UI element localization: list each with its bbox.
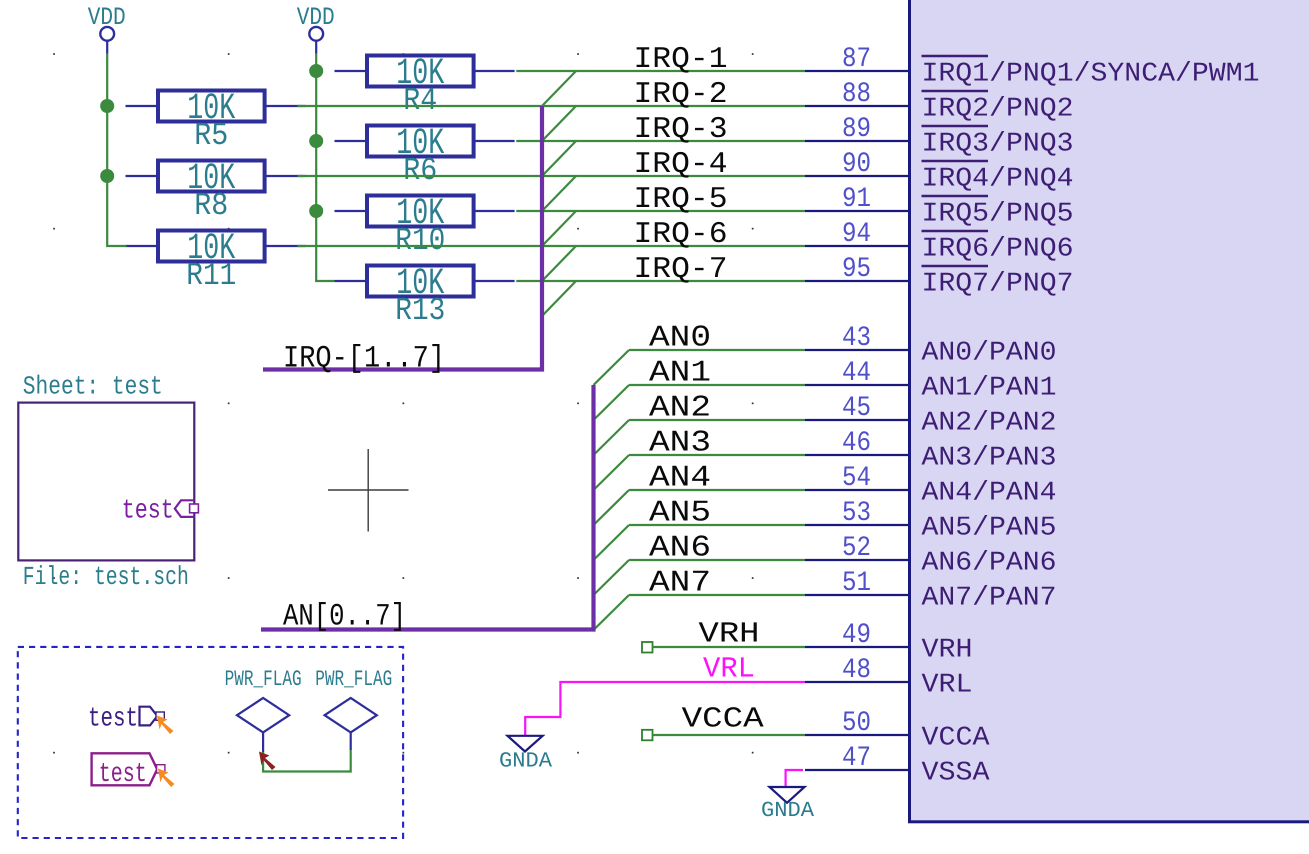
- svg-text:VRL: VRL: [922, 671, 973, 701]
- svg-text:AN3: AN3: [649, 427, 711, 461]
- svg-text:IRQ-6: IRQ-6: [634, 218, 728, 252]
- svg-text:GNDA: GNDA: [761, 799, 814, 823]
- junction (107,106): [100, 99, 114, 113]
- bus entry IRQ y=71: [542, 71, 576, 106]
- hierarchical label "test": [88, 705, 164, 735]
- wire AN row y=350: [629, 349, 805, 351]
- svg-text:VSSA: VSSA: [922, 759, 991, 789]
- svg-text:IRQ3/PNQ3: IRQ3/PNQ3: [922, 130, 1074, 160]
- wire AN row y=560: [629, 559, 805, 561]
- crosshair marker: [328, 449, 409, 532]
- bus entry AN y=350: [594, 350, 630, 385]
- svg-text:IRQ6/PNQ6: IRQ6/PNQ6: [922, 235, 1074, 265]
- dashed selection box: [18, 647, 403, 838]
- bus entry AN y=420: [594, 420, 630, 455]
- svg-text:R10: R10: [395, 222, 445, 259]
- svg-text:46: 46: [842, 428, 871, 459]
- U1 pin 89 (IRQ3): [805, 114, 1074, 160]
- svg-text:test: test: [122, 497, 174, 527]
- svg-text:91: 91: [842, 184, 871, 215]
- resistor R13 (10K): [335, 263, 515, 329]
- wire IRQ row y=106: [298, 105, 806, 107]
- svg-text:R13: R13: [395, 292, 445, 329]
- svg-text:AN2/PAN2: AN2/PAN2: [922, 409, 1057, 439]
- svg-text:AN3/PAN3: AN3/PAN3: [922, 444, 1057, 474]
- svg-text:IRQ-5: IRQ-5: [634, 183, 728, 217]
- wire AN row y=420: [629, 419, 805, 421]
- svg-text:51: 51: [842, 568, 871, 599]
- global label "test": [92, 753, 165, 790]
- svg-text:AN5/PAN5: AN5/PAN5: [922, 514, 1057, 544]
- marker arrow (dark red) on PWR_FLAG wire: [259, 752, 276, 771]
- bus IRQ-[1..7]: [263, 106, 542, 370]
- svg-text:IRQ7/PNQ7: IRQ7/PNQ7: [922, 270, 1074, 300]
- wire IRQ row y=71: [516, 70, 805, 72]
- IC U1 body: [910, 0, 1309, 822]
- svg-text:PWR_FLAG: PWR_FLAG: [225, 667, 302, 692]
- svg-text:test: test: [99, 760, 147, 790]
- wire IRQ row y=246: [298, 245, 806, 247]
- bus entry IRQ y=246: [542, 246, 576, 281]
- wire between PWR_FLAGs: [263, 750, 351, 772]
- bus entry IRQ y=176: [542, 176, 576, 211]
- svg-text:File: test.sch: File: test.sch: [23, 562, 189, 592]
- svg-text:GNDA: GNDA: [499, 750, 552, 774]
- svg-text:IRQ-1: IRQ-1: [634, 43, 728, 77]
- wire IRQ row y=211: [516, 210, 805, 212]
- svg-text:45: 45: [842, 393, 871, 424]
- PWR_FLAG symbol 1: [225, 667, 302, 752]
- svg-text:48: 48: [842, 655, 871, 686]
- U1 pin 91 (IRQ5): [805, 184, 1074, 230]
- svg-text:IRQ-3: IRQ-3: [634, 113, 728, 147]
- power symbol VDD1 (VDD): [88, 3, 126, 54]
- sheet symbol "test": [18, 403, 194, 561]
- bus entry AN y=595: [594, 595, 630, 630]
- wire IRQ row y=281: [516, 280, 805, 282]
- sheet pin "test": [122, 497, 199, 527]
- svg-text:44: 44: [842, 358, 871, 389]
- svg-text:IRQ-[1..7]: IRQ-[1..7]: [283, 342, 445, 377]
- svg-text:R8: R8: [194, 187, 228, 224]
- svg-text:54: 54: [842, 463, 871, 494]
- power symbol VDD2 (VDD): [297, 3, 335, 54]
- resistor R4 (10K): [335, 53, 515, 119]
- svg-text:52: 52: [842, 533, 871, 564]
- U1 pin 51 (AN7): [805, 568, 1057, 614]
- bus entry AN y=490: [594, 490, 630, 525]
- bus entry IRQ y=141: [542, 141, 576, 176]
- svg-text:VRH: VRH: [699, 617, 760, 650]
- svg-text:VCCA: VCCA: [922, 724, 991, 754]
- resistor R6 (10K): [335, 123, 515, 189]
- ground GNDA (right): [761, 787, 814, 823]
- svg-text:VRL: VRL: [703, 653, 755, 686]
- svg-text:95: 95: [842, 254, 871, 285]
- U1 pin 46 (AN3): [805, 428, 1057, 474]
- bus entry IRQ y=106: [542, 106, 576, 141]
- svg-text:R11: R11: [186, 257, 236, 294]
- svg-text:AN1: AN1: [649, 357, 711, 391]
- wire AN row y=595: [629, 594, 805, 596]
- resistor R11 (10K): [126, 228, 306, 294]
- marker arrow (orange) on hierarchical label: [157, 716, 174, 735]
- wire AN row y=490: [629, 489, 805, 491]
- svg-text:AN[0..7]: AN[0..7]: [283, 600, 406, 635]
- bus entry AN y=525: [594, 525, 630, 560]
- svg-text:AN7: AN7: [649, 567, 711, 601]
- wire VDD left column: [107, 54, 126, 247]
- bus entry AN y=455: [594, 455, 630, 490]
- marker arrow (orange) on global label: [158, 769, 175, 788]
- U1 pin 49 (VRH): [805, 620, 973, 666]
- wire VSSA (magenta) to GNDA: [786, 770, 803, 787]
- U1 pin 94 (IRQ6): [805, 219, 1074, 265]
- wire VRH with unconnected-end square: [642, 642, 805, 653]
- U1 pin 45 (AN2): [805, 393, 1057, 439]
- bus entry AN y=385: [594, 385, 630, 420]
- svg-text:AN7/PAN7: AN7/PAN7: [922, 584, 1057, 614]
- bus AN[0..7]: [261, 385, 594, 630]
- U1 pin 53 (AN5): [805, 498, 1057, 544]
- U1 pin 44 (AN1): [805, 358, 1057, 404]
- svg-text:53: 53: [842, 498, 871, 529]
- svg-text:IRQ2/PNQ2: IRQ2/PNQ2: [922, 95, 1074, 125]
- svg-text:47: 47: [842, 743, 871, 774]
- junction (107,176): [100, 169, 114, 183]
- svg-text:88: 88: [842, 79, 871, 110]
- svg-text:49: 49: [842, 620, 871, 651]
- U1 pin 48 (VRL): [805, 655, 973, 701]
- svg-text:AN4: AN4: [649, 462, 711, 496]
- junction (316,141): [309, 134, 323, 148]
- svg-text:89: 89: [842, 114, 871, 145]
- svg-text:AN2: AN2: [649, 392, 711, 426]
- bus entry AN y=560: [594, 560, 630, 595]
- resistor R5 (10K): [126, 88, 306, 154]
- svg-text:IRQ4/PNQ4: IRQ4/PNQ4: [922, 165, 1074, 195]
- PWR_FLAG symbol 2: [315, 667, 392, 750]
- wire VCCA with unconnected-end square: [642, 730, 805, 741]
- svg-text:Sheet: test: Sheet: test: [23, 372, 163, 402]
- svg-text:AN4/PAN4: AN4/PAN4: [922, 479, 1057, 509]
- svg-text:R4: R4: [403, 82, 437, 119]
- U1 pin 50 (VCCA): [805, 708, 990, 754]
- svg-text:R6: R6: [403, 152, 437, 189]
- ground GNDA (left): [499, 736, 552, 774]
- svg-text:AN6/PAN6: AN6/PAN6: [922, 549, 1057, 579]
- wire IRQ row y=176: [298, 175, 806, 177]
- wire AN row y=385: [629, 384, 805, 386]
- wire VDD right column: [316, 54, 334, 282]
- U1 pin 47 (VSSA): [805, 743, 990, 789]
- wire AN row y=455: [629, 454, 805, 456]
- svg-text:VRH: VRH: [922, 636, 973, 666]
- U1 pin 90 (IRQ4): [805, 149, 1074, 195]
- resistor R10 (10K): [335, 193, 515, 259]
- svg-text:AN5: AN5: [649, 497, 711, 531]
- resistor R8 (10K): [126, 158, 306, 224]
- svg-text:94: 94: [842, 219, 871, 250]
- wire AN row y=525: [629, 524, 805, 526]
- bus entry IRQ y=281: [542, 281, 576, 316]
- svg-text:AN0/PAN0: AN0/PAN0: [922, 339, 1057, 369]
- svg-text:IRQ5/PNQ5: IRQ5/PNQ5: [922, 200, 1074, 230]
- svg-text:IRQ-7: IRQ-7: [634, 253, 728, 287]
- svg-text:R5: R5: [194, 117, 228, 154]
- svg-text:IRQ-2: IRQ-2: [634, 78, 728, 112]
- svg-text:IRQ-4: IRQ-4: [634, 148, 728, 182]
- svg-text:PWR_FLAG: PWR_FLAG: [315, 667, 392, 692]
- junction (316,71): [309, 64, 323, 78]
- U1 pin 88 (IRQ2): [805, 79, 1074, 125]
- U1 pin 95 (IRQ7): [805, 254, 1074, 300]
- U1 pin 43 (AN0): [805, 323, 1057, 369]
- U1 pin 54 (AN4): [805, 463, 1057, 509]
- svg-text:test: test: [88, 705, 138, 735]
- svg-text:90: 90: [842, 149, 871, 180]
- svg-text:VCCA: VCCA: [682, 703, 765, 736]
- svg-text:AN6: AN6: [649, 532, 711, 566]
- svg-text:50: 50: [842, 708, 871, 739]
- bus entry IRQ y=211: [542, 211, 576, 246]
- wire VRL (magenta) to GNDA: [525, 682, 805, 735]
- svg-text:43: 43: [842, 323, 871, 354]
- svg-text:87: 87: [842, 44, 871, 75]
- svg-text:AN0: AN0: [649, 322, 711, 356]
- U1 pin 52 (AN6): [805, 533, 1057, 579]
- wire IRQ row y=141: [516, 140, 805, 142]
- svg-text:AN1/PAN1: AN1/PAN1: [922, 374, 1057, 404]
- U1 pin 87 (IRQ1): [805, 44, 1260, 90]
- svg-text:IRQ1/PNQ1/SYNCA/PWM1: IRQ1/PNQ1/SYNCA/PWM1: [922, 60, 1260, 90]
- junction (316,211): [309, 204, 323, 218]
